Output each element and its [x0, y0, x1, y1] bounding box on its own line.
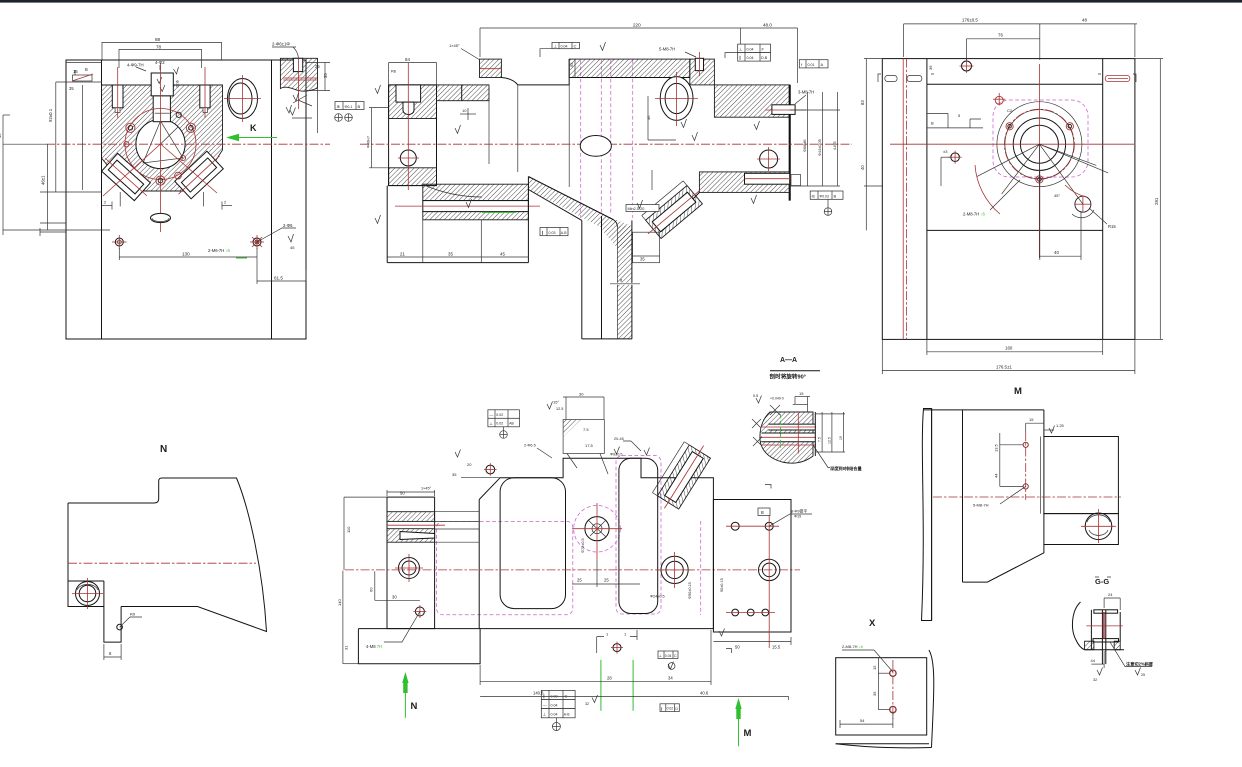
svg-text:8-Φ9锪平: 8-Φ9锪平 [791, 509, 807, 514]
svg-text:B: B [931, 121, 934, 126]
svg-text:0.02: 0.02 [496, 413, 503, 417]
svg-text:⊕: ⊕ [337, 104, 340, 109]
svg-text:45°: 45° [1054, 193, 1060, 198]
svg-text:25: 25 [577, 578, 582, 583]
svg-text:15: 15 [73, 69, 78, 74]
svg-text:4-M5: 4-M5 [833, 141, 837, 150]
svg-text:15.5: 15.5 [772, 645, 781, 650]
svg-text:7.5: 7.5 [583, 427, 589, 432]
svg-text:61.5: 61.5 [274, 276, 283, 281]
svg-text:Φ0.1: Φ0.1 [345, 105, 353, 109]
svg-text:30: 30 [392, 594, 397, 599]
svg-text:46: 46 [0, 133, 2, 138]
svg-text:深度到8排结合量: 深度到8排结合量 [830, 465, 862, 472]
svg-text:Φ15: Φ15 [794, 515, 801, 519]
svg-text:35: 35 [323, 73, 328, 78]
svg-text:Φ44±0.05: Φ44±0.05 [818, 139, 822, 156]
svg-text:Min2.5-20: Min2.5-20 [628, 207, 645, 211]
svg-text:48.0: 48.0 [763, 23, 772, 28]
svg-text:10: 10 [462, 108, 467, 113]
svg-text:Φ9±0.5: Φ9±0.5 [610, 453, 623, 457]
svg-text:Φ32: Φ32 [175, 80, 180, 88]
svg-text:76: 76 [998, 33, 1003, 38]
svg-text:34: 34 [668, 676, 673, 681]
svg-text:+0.049 0: +0.049 0 [770, 397, 784, 401]
svg-text:2-Φ6.5: 2-Φ6.5 [524, 444, 536, 448]
svg-text:176±0.5: 176±0.5 [962, 18, 978, 23]
svg-text:⊥: ⊥ [489, 421, 493, 426]
svg-text:0.02: 0.02 [496, 422, 503, 426]
svg-text:25: 25 [1141, 673, 1145, 677]
svg-text:78: 78 [156, 45, 162, 50]
svg-text:R9: R9 [130, 612, 136, 617]
svg-text:D: D [675, 707, 678, 711]
svg-text:0.04: 0.04 [551, 713, 558, 717]
svg-text:13.5: 13.5 [994, 443, 999, 452]
svg-text:1.25: 1.25 [1056, 423, 1065, 428]
svg-text:1×45°: 1×45° [421, 487, 432, 491]
svg-text:20: 20 [467, 462, 472, 467]
svg-text:21: 21 [400, 252, 405, 257]
svg-text:B: B [358, 104, 361, 109]
svg-text:◎: ◎ [812, 194, 816, 199]
svg-text:35: 35 [452, 472, 457, 477]
svg-text:60: 60 [369, 587, 374, 592]
svg-text:4-Φ2: 4-Φ2 [155, 60, 165, 65]
svg-text:35: 35 [640, 257, 645, 262]
svg-text:176.5±1: 176.5±1 [996, 364, 1012, 369]
svg-text:⊥: ⊥ [543, 712, 547, 717]
svg-text:5-M8-7H: 5-M8-7H [659, 47, 675, 52]
svg-text:A-B: A-B [564, 713, 570, 717]
svg-text:3-M8-7H: 3-M8-7H [798, 90, 814, 95]
svg-text:AB: AB [509, 422, 514, 426]
svg-text:M: M [1014, 386, 1022, 397]
svg-text:Φ72±0.5: Φ72±0.5 [581, 538, 585, 553]
svg-text:B: B [85, 67, 88, 72]
svg-text:54: 54 [860, 718, 865, 723]
svg-text:C: C [565, 694, 568, 699]
svg-text:2-M6-7H ↓6: 2-M6-7H ↓6 [208, 248, 231, 253]
svg-text:84: 84 [405, 57, 410, 62]
svg-text:0.02: 0.02 [667, 707, 674, 711]
svg-text:X: X [869, 618, 876, 629]
svg-text:2-M8-7H ↓6: 2-M8-7H ↓6 [842, 644, 864, 649]
svg-text:Φ0.03: Φ0.03 [820, 194, 829, 198]
svg-text:44: 44 [1091, 658, 1096, 663]
svg-text:2-Φ6: 2-Φ6 [283, 223, 293, 228]
svg-text:K: K [250, 123, 257, 133]
svg-text:0.5: 0.5 [753, 394, 758, 398]
svg-text:48: 48 [1082, 18, 1087, 23]
svg-text:36: 36 [928, 65, 933, 70]
svg-text:N: N [160, 444, 167, 455]
svg-text:28: 28 [607, 676, 612, 681]
svg-text:46: 46 [646, 115, 651, 120]
svg-text:1×45°: 1×45° [449, 43, 460, 48]
svg-text:M: M [744, 728, 752, 739]
svg-text:110: 110 [346, 526, 351, 533]
svg-text:17.5: 17.5 [585, 443, 594, 448]
svg-text:90±0.15: 90±0.15 [720, 578, 724, 592]
svg-text:G-G: G-G [1095, 577, 1109, 586]
svg-text:19: 19 [839, 436, 843, 440]
svg-text:±3: ±3 [943, 149, 948, 154]
svg-text:B: B [761, 510, 764, 515]
svg-text:46±1: 46±1 [41, 175, 46, 185]
svg-text:∥: ∥ [739, 55, 741, 60]
svg-text:25: 25 [315, 64, 320, 69]
svg-text:130: 130 [182, 252, 190, 257]
svg-text:0.04: 0.04 [561, 44, 568, 48]
svg-text:55: 55 [569, 62, 574, 67]
svg-text:32: 32 [585, 702, 589, 706]
svg-text:30: 30 [579, 392, 584, 397]
svg-text:140.8: 140.8 [533, 690, 544, 695]
svg-text:15: 15 [872, 665, 877, 670]
svg-text:50: 50 [400, 491, 405, 496]
svg-text:D-B: D-B [761, 56, 768, 60]
svg-text:R15: R15 [1108, 224, 1116, 229]
svg-text:0.04: 0.04 [551, 703, 558, 707]
svg-text:⊥: ⊥ [554, 44, 558, 49]
svg-text:0.04: 0.04 [665, 654, 672, 658]
svg-text:281: 281 [1154, 197, 1159, 205]
svg-text:7.5: 7.5 [818, 437, 822, 442]
svg-text:88: 88 [155, 37, 161, 42]
svg-text:A—A: A—A [780, 357, 797, 364]
svg-text:2-M8-7H ↓6: 2-M8-7H ↓6 [963, 212, 986, 217]
svg-text:Φ40H7: Φ40H7 [367, 136, 371, 148]
svg-text:15°: 15° [553, 400, 559, 405]
svg-text:45: 45 [500, 252, 505, 257]
svg-text:44: 44 [994, 473, 999, 478]
svg-text:R6: R6 [391, 69, 397, 74]
svg-text:∥: ∥ [542, 230, 544, 235]
svg-text:0.01: 0.01 [808, 63, 815, 67]
svg-text:35: 35 [69, 86, 74, 91]
svg-text:—: — [489, 412, 493, 417]
svg-text:Φ90±0.15: Φ90±0.15 [688, 582, 692, 599]
svg-text:20-45: 20-45 [614, 437, 624, 441]
svg-text:45: 45 [290, 245, 295, 250]
svg-text:0.04: 0.04 [747, 47, 754, 51]
svg-text:C: C [574, 44, 577, 49]
svg-text:32: 32 [1093, 678, 1097, 682]
svg-text:83: 83 [860, 100, 865, 105]
svg-text:—: — [543, 703, 547, 708]
svg-text:注意切2%斜度: 注意切2%斜度 [1126, 660, 1154, 667]
svg-text:⊥: ⊥ [739, 47, 743, 52]
svg-text:35: 35 [872, 691, 877, 696]
svg-text:25: 25 [604, 578, 609, 583]
svg-text:40: 40 [860, 165, 865, 170]
svg-text:2-Φ6±1Φ: 2-Φ6±1Φ [272, 42, 290, 47]
svg-text:0.03: 0.03 [549, 231, 556, 235]
svg-text:N: N [411, 701, 418, 712]
svg-text:31: 31 [344, 645, 349, 650]
svg-text:5-M8-7H: 5-M8-7H [973, 503, 989, 508]
svg-text:35: 35 [448, 252, 453, 257]
svg-text:4-Φ9-7H: 4-Φ9-7H [127, 63, 144, 68]
svg-text:B: B [834, 194, 837, 199]
svg-text:A-B: A-B [561, 231, 567, 235]
svg-text:4-M8 7H: 4-M8 7H [366, 644, 382, 649]
svg-text:15: 15 [799, 391, 804, 396]
svg-text:C: C [674, 654, 677, 658]
svg-text:Φ24±0.5: Φ24±0.5 [650, 595, 665, 599]
svg-text:220: 220 [633, 23, 641, 28]
svg-text:A: A [821, 62, 824, 67]
svg-text:Φ66M6: Φ66M6 [803, 139, 807, 152]
svg-text:160: 160 [1005, 346, 1013, 351]
svg-text:剖时将旋转90°: 剖时将旋转90° [770, 373, 806, 381]
svg-text:50: 50 [735, 645, 740, 650]
svg-text:40.6: 40.6 [700, 690, 709, 695]
svg-text:∥: ∥ [661, 706, 663, 711]
svg-text:15: 15 [1029, 417, 1034, 422]
svg-text:92±0.1: 92±0.1 [48, 108, 53, 122]
svg-text:C2: C2 [1007, 108, 1013, 113]
svg-text:12.5: 12.5 [556, 407, 563, 411]
svg-text:0.04: 0.04 [747, 56, 754, 60]
svg-text:24: 24 [1108, 592, 1113, 597]
svg-text:40: 40 [1054, 250, 1059, 255]
svg-text:12.5: 12.5 [828, 437, 832, 444]
svg-text:140: 140 [337, 599, 342, 606]
